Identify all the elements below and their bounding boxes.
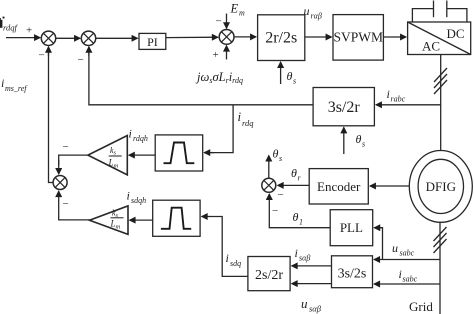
svg-text:s: s — [362, 140, 365, 149]
svg-text:rαβ: rαβ — [311, 12, 322, 21]
svg-text:m: m — [239, 9, 245, 18]
svg-text:r: r — [298, 174, 302, 183]
svg-text:s: s — [293, 77, 296, 86]
svg-text:3s/2s: 3s/2s — [338, 267, 367, 282]
svg-text:sdqh: sdqh — [131, 196, 146, 205]
svg-text:−: − — [63, 198, 69, 210]
svg-text:ms_ref: ms_ref — [5, 84, 28, 93]
svg-text:s: s — [279, 154, 282, 163]
svg-text:+: + — [26, 25, 32, 37]
svg-text:sdq: sdq — [230, 259, 241, 268]
svg-text:2r/2s: 2r/2s — [265, 30, 297, 47]
svg-text:u: u — [301, 296, 308, 311]
svg-text:E: E — [230, 2, 239, 16]
svg-text:Grid: Grid — [409, 299, 433, 314]
svg-text:DFIG: DFIG — [426, 179, 456, 194]
svg-text:3s/2r: 3s/2r — [328, 99, 361, 116]
svg-text:i: i — [1, 76, 4, 90]
svg-text:sαβ: sαβ — [309, 304, 322, 314]
svg-text:−: − — [272, 205, 278, 217]
svg-text:θ: θ — [293, 210, 299, 224]
svg-text:PLL: PLL — [340, 220, 363, 235]
svg-text:i: i — [399, 267, 402, 281]
svg-text:i: i — [226, 251, 229, 265]
svg-text:θ: θ — [291, 166, 297, 180]
svg-text:SVPWM: SVPWM — [333, 30, 383, 45]
svg-text:θ: θ — [287, 69, 293, 83]
svg-text:2s/2r: 2s/2r — [255, 268, 283, 283]
svg-text:PI: PI — [147, 35, 158, 49]
svg-text:u: u — [304, 4, 310, 18]
svg-text:i: i — [238, 109, 242, 124]
svg-text:−: − — [39, 50, 45, 62]
svg-text:rdqf: rdqf — [3, 23, 18, 33]
svg-text:1: 1 — [299, 218, 303, 227]
svg-text:sabc: sabc — [400, 249, 415, 258]
svg-text:sabc: sabc — [403, 275, 418, 284]
svg-text:rdq: rdq — [242, 118, 254, 128]
svg-text:AC: AC — [422, 39, 440, 54]
svg-text:Encoder: Encoder — [317, 179, 361, 194]
svg-text:rdqh: rdqh — [133, 134, 148, 143]
svg-text:jωsσLrirdq: jωsσLrirdq — [195, 70, 243, 85]
svg-text:DC: DC — [446, 26, 464, 41]
svg-text:−: − — [78, 54, 84, 66]
svg-text:i: i — [129, 127, 132, 141]
svg-text:θ: θ — [356, 132, 362, 146]
svg-text:−: − — [216, 16, 222, 28]
svg-text:sαβ: sαβ — [299, 254, 310, 263]
svg-text:+: + — [213, 49, 219, 61]
svg-text:−: − — [278, 189, 284, 201]
svg-text:u: u — [392, 241, 398, 255]
svg-text:i: i — [295, 246, 298, 260]
svg-text:−: − — [63, 141, 69, 153]
svg-text:rabc: rabc — [391, 95, 406, 104]
svg-text:i: i — [387, 87, 390, 101]
svg-text:θ: θ — [273, 147, 279, 161]
svg-text:i: i — [127, 189, 130, 203]
